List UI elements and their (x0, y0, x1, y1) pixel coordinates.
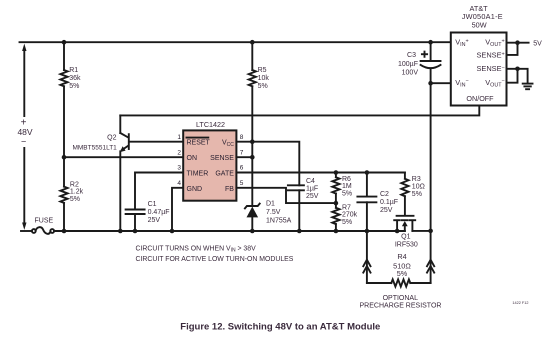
svg-text:10k: 10k (258, 75, 270, 82)
node: +48V source label (17, 117, 32, 146)
svg-text:3: 3 (177, 165, 181, 172)
svg-text:VCC: VCC (222, 140, 234, 148)
svg-text:C2: C2 (380, 191, 389, 198)
svg-text:7.5V: 7.5V (266, 209, 281, 216)
svg-text:MMBT5551LT1: MMBT5551LT1 (72, 144, 117, 151)
resistor R5 (249, 42, 270, 142)
svg-text:5%: 5% (342, 219, 352, 226)
capacitor C3 100uF (398, 42, 441, 83)
svg-text:GATE: GATE (215, 171, 234, 178)
svg-text:C4: C4 (306, 178, 315, 185)
junction: drain / VIN- column (428, 229, 433, 234)
svg-text:D1: D1 (266, 200, 275, 207)
resistor R3 (401, 173, 425, 215)
svg-text:7: 7 (240, 149, 244, 156)
svg-text:10Ω: 10Ω (412, 184, 425, 191)
wire: SENSE- stub (507, 69, 528, 83)
wire: Q1 drain to VIN- column (412, 230, 430, 232)
wire: bottom rail left of fuse (21, 230, 32, 232)
junction: top rail / C3 (428, 40, 433, 45)
wire: top +48V rail (20, 41, 451, 43)
svg-text:270k: 270k (342, 212, 358, 219)
svg-text:C3: C3 (407, 52, 416, 59)
svg-text:SENSE: SENSE (210, 155, 234, 162)
transistor Q2 (72, 115, 128, 231)
svg-text:R5: R5 (258, 67, 267, 74)
wire: bottom rail (54, 230, 405, 232)
svg-text:100µF: 100µF (398, 61, 418, 68)
junction: C3 / VIN- wire (428, 81, 433, 86)
junction: FB / R6-R7 (334, 201, 339, 206)
svg-text:CIRCUIT TURNS ON WHEN VIN > 38: CIRCUIT TURNS ON WHEN VIN > 38V (136, 245, 257, 253)
svg-text:36k: 36k (69, 75, 81, 82)
IC U1 LTC1422 (177, 120, 243, 201)
resistor R1 (60, 42, 81, 157)
junction: VOUT+ / SENSE+ (515, 40, 520, 45)
junction: rail / R2 (62, 229, 67, 234)
capacitor C4 (288, 178, 319, 231)
svg-text:1: 1 (177, 134, 181, 141)
svg-text:SENSE+: SENSE+ (476, 51, 504, 60)
svg-text:Q1: Q1 (401, 233, 410, 240)
wire: GND pin 4 to rail (172, 188, 183, 231)
junction: SENSE / R5-D1 column (250, 155, 255, 160)
svg-text:FB: FB (225, 186, 234, 193)
svg-text:R6: R6 (342, 176, 351, 183)
svg-text:R7: R7 (342, 204, 351, 211)
wire: Q2 base to RESET pin 1 (130, 141, 183, 143)
svg-text:R4: R4 (397, 252, 406, 261)
junction: rail / Q1 source (395, 229, 400, 234)
junction: rail / Q2 emitter (118, 229, 123, 234)
svg-text:1.2k: 1.2k (70, 189, 84, 196)
svg-text:PRECHARGE RESISTOR: PRECHARGE RESISTOR (360, 303, 442, 310)
svg-text:25V: 25V (148, 217, 161, 224)
svg-text:−: − (21, 137, 26, 147)
ground (523, 84, 533, 90)
svg-text:0.1µF: 0.1µF (380, 199, 398, 206)
svg-text:R1: R1 (69, 67, 78, 74)
svg-text:ON/OFF: ON/OFF (466, 94, 494, 103)
junction: rail / D1 (250, 229, 255, 234)
resistor R7 (332, 204, 357, 231)
junction: GATE / C2 (365, 170, 370, 175)
svg-text:JW050A1-E: JW050A1-E (462, 12, 503, 21)
wire: VCC pin 8 stub (236, 141, 252, 143)
svg-text:R3: R3 (412, 176, 421, 183)
junction: SENSE- / VOUT- (515, 67, 520, 72)
wire: SENSE pin 7 stub (236, 156, 252, 158)
svg-text:Figure 12. Switching 48V to an: Figure 12. Switching 48V to an AT&T Modu… (180, 321, 380, 332)
junction: rail / C1 (133, 229, 138, 234)
svg-text:5: 5 (240, 180, 244, 187)
wire: TIMER pin 3 to C1 (135, 173, 183, 210)
svg-text:Q2: Q2 (107, 134, 116, 141)
svg-text:OPTIONAL: OPTIONAL (383, 295, 419, 302)
wire: column SENSE to D1 (251, 157, 253, 206)
junction: rail / GND pin (170, 229, 175, 234)
svg-text:TIMER: TIMER (187, 171, 209, 178)
junction: VCC / R5-D1 column (250, 139, 255, 144)
svg-text:5%: 5% (70, 196, 80, 203)
svg-text:1N755A: 1N755A (266, 218, 292, 225)
svg-text:LTC1422: LTC1422 (196, 120, 225, 129)
fuse FUSE (32, 218, 54, 234)
svg-text:1422 F12: 1422 F12 (512, 301, 528, 305)
wire: VIN- column down to Q1 drain (430, 83, 432, 231)
junction: top rail / R5 (250, 40, 255, 45)
svg-text:5%: 5% (412, 191, 422, 198)
svg-text:RESET: RESET (187, 140, 211, 147)
svg-text:5%: 5% (258, 83, 268, 90)
svg-text:R2: R2 (70, 181, 79, 188)
junction: rail / C4 (297, 229, 302, 234)
wire: ON pin 2 wire (64, 156, 183, 158)
svg-text:5%: 5% (397, 269, 408, 278)
junction: GATE / R6 (334, 170, 339, 175)
junction: rail / C2 and R4 (365, 229, 370, 234)
pin 1 RESET (187, 137, 209, 139)
svg-text:CIRCUIT FOR ACTIVE LOW TURN-ON: CIRCUIT FOR ACTIVE LOW TURN-ON MODULES (136, 256, 294, 263)
svg-text:5%: 5% (69, 83, 79, 90)
transistor Q1 IRF530 (394, 216, 418, 249)
wire: FB pin 5 to divider (236, 188, 336, 203)
svg-text:6: 6 (240, 165, 244, 172)
svg-text:SENSE−: SENSE− (476, 64, 504, 73)
wire: VOUT+ stub to 5V (507, 42, 529, 44)
module U2 AT&T JW050A1-E (451, 4, 507, 106)
svg-text:0.47µF: 0.47µF (148, 209, 170, 216)
svg-text:5%: 5% (342, 190, 352, 197)
resistor R6 (332, 173, 352, 208)
svg-text:50W: 50W (472, 21, 487, 30)
wire: GATE pin 6 wire (236, 172, 405, 174)
resistor R4 (optional precharge) (360, 231, 442, 310)
svg-text:IRF530: IRF530 (395, 242, 418, 249)
wire: Q2 collector to module ON/OFF (120, 106, 479, 115)
junction: rail / R7 (334, 229, 339, 234)
svg-text:25V: 25V (306, 193, 319, 200)
wire: SENSE+ tie (507, 43, 518, 55)
svg-text:GND: GND (187, 186, 203, 193)
capacitor C1 (126, 201, 170, 231)
capacitor C2 (357, 173, 398, 232)
wire: +48V measuring line with end arrows (22, 44, 26, 230)
wire: VCC to C4 (252, 142, 299, 186)
svg-text:2: 2 (177, 149, 181, 156)
svg-text:5V: 5V (533, 40, 542, 47)
wire: VIN- wire to module (431, 82, 451, 84)
diode D1 zener 1N755A (245, 200, 292, 231)
svg-text:4: 4 (177, 180, 181, 187)
svg-text:1M: 1M (342, 183, 352, 190)
svg-text:C1: C1 (148, 201, 157, 208)
junction: R1/R2/ON node (62, 155, 67, 160)
svg-text:FUSE: FUSE (35, 218, 54, 225)
svg-text:8: 8 (240, 134, 244, 141)
svg-text:1µF: 1µF (306, 186, 318, 193)
wire: VOUT- tie (507, 69, 518, 83)
svg-text:ON: ON (187, 155, 198, 162)
svg-text:25V: 25V (380, 207, 393, 214)
junction: top rail / R1 (62, 40, 67, 45)
svg-text:100V: 100V (402, 70, 419, 77)
resistor R2 (60, 157, 83, 231)
note: circuit behaviour text (136, 245, 294, 263)
wire: R5-D1 column between SENSE and VCC (251, 142, 253, 158)
